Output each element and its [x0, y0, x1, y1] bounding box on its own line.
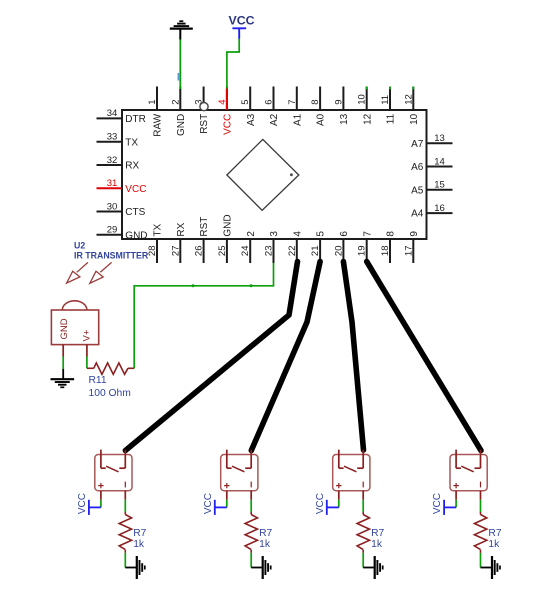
svg-text:26: 26: [194, 246, 205, 257]
svg-text:A7: A7: [411, 139, 424, 150]
svg-text:R7: R7: [371, 528, 384, 539]
svg-text:A5: A5: [411, 185, 424, 196]
svg-text:CTS: CTS: [125, 207, 145, 218]
svg-text:20: 20: [333, 246, 344, 257]
svg-text:A0: A0: [316, 113, 327, 126]
svg-text:2: 2: [246, 231, 257, 237]
svg-text:RST: RST: [199, 217, 210, 237]
svg-text:R7: R7: [488, 528, 501, 539]
svg-text:3: 3: [269, 231, 280, 237]
svg-text:18: 18: [380, 246, 391, 257]
svg-text:11: 11: [386, 113, 397, 124]
svg-text:4: 4: [292, 231, 303, 237]
svg-text:6: 6: [264, 100, 275, 105]
svg-text:VCC: VCC: [77, 493, 88, 514]
svg-text:GND: GND: [59, 318, 70, 339]
svg-text:5: 5: [316, 231, 327, 237]
svg-text:14: 14: [434, 156, 445, 167]
svg-text:1: 1: [147, 100, 158, 105]
svg-text:RX: RX: [125, 161, 139, 172]
svg-text:34: 34: [107, 108, 118, 119]
svg-text:28: 28: [147, 246, 158, 257]
svg-text:12: 12: [403, 94, 414, 105]
svg-text:32: 32: [107, 155, 118, 166]
svg-text:21: 21: [310, 246, 321, 257]
svg-text:VCC: VCC: [125, 184, 146, 195]
svg-text:5: 5: [240, 100, 251, 105]
svg-text:A2: A2: [269, 113, 280, 126]
svg-text:VCC: VCC: [203, 493, 214, 514]
svg-text:TX: TX: [125, 137, 138, 148]
svg-text:VCC: VCC: [229, 14, 255, 28]
svg-text:17: 17: [403, 246, 414, 257]
svg-text:22: 22: [287, 246, 298, 257]
svg-text:100 Ohm: 100 Ohm: [89, 388, 131, 399]
svg-text:TX: TX: [153, 223, 164, 236]
svg-text:25: 25: [217, 246, 228, 257]
svg-text:31: 31: [107, 178, 118, 189]
svg-text:15: 15: [434, 180, 445, 191]
svg-text:11: 11: [380, 95, 391, 105]
svg-text:GND: GND: [125, 230, 147, 241]
svg-text:33: 33: [107, 132, 118, 143]
svg-text:7: 7: [362, 231, 373, 237]
svg-text:6: 6: [339, 231, 350, 237]
svg-text:24: 24: [240, 246, 251, 257]
svg-text:9: 9: [409, 231, 420, 237]
svg-text:13: 13: [434, 133, 445, 144]
svg-text:2: 2: [170, 100, 181, 105]
svg-text:12: 12: [362, 113, 373, 125]
svg-text:A6: A6: [411, 162, 424, 173]
svg-text:7: 7: [287, 100, 298, 105]
svg-text:29: 29: [107, 225, 118, 236]
svg-text:R7: R7: [259, 528, 272, 539]
svg-text:10: 10: [409, 113, 420, 125]
svg-text:R7: R7: [133, 528, 146, 539]
svg-text:A1: A1: [292, 113, 303, 126]
svg-text:RAW: RAW: [153, 113, 164, 137]
svg-text:1k: 1k: [488, 539, 500, 550]
svg-text:VCC: VCC: [223, 114, 234, 135]
svg-text:1k: 1k: [133, 539, 145, 550]
svg-text:10: 10: [357, 94, 368, 105]
svg-text:RX: RX: [176, 222, 187, 236]
svg-text:GND: GND: [223, 214, 234, 236]
svg-text:1k: 1k: [259, 539, 271, 550]
svg-text:A3: A3: [246, 113, 257, 126]
svg-text:VCC: VCC: [432, 493, 443, 514]
svg-text:U2: U2: [74, 241, 85, 251]
svg-text:V+: V+: [81, 329, 92, 341]
svg-text:1k: 1k: [371, 539, 383, 550]
svg-text:R11: R11: [89, 375, 107, 386]
svg-text:DTR: DTR: [125, 114, 146, 125]
svg-text:27: 27: [170, 246, 181, 257]
svg-text:IR TRANSMITTER: IR TRANSMITTER: [74, 250, 149, 260]
svg-text:13: 13: [339, 113, 350, 125]
svg-text:VCC: VCC: [315, 493, 326, 514]
svg-text:A4: A4: [411, 209, 424, 220]
svg-text:GND: GND: [176, 114, 187, 136]
svg-text:30: 30: [107, 201, 118, 212]
svg-text:23: 23: [264, 246, 275, 257]
svg-text:9: 9: [333, 100, 344, 105]
svg-text:8: 8: [386, 231, 397, 237]
svg-text:16: 16: [434, 203, 445, 214]
svg-text:8: 8: [310, 100, 321, 105]
svg-text:19: 19: [357, 246, 368, 257]
svg-text:RST: RST: [199, 114, 210, 134]
